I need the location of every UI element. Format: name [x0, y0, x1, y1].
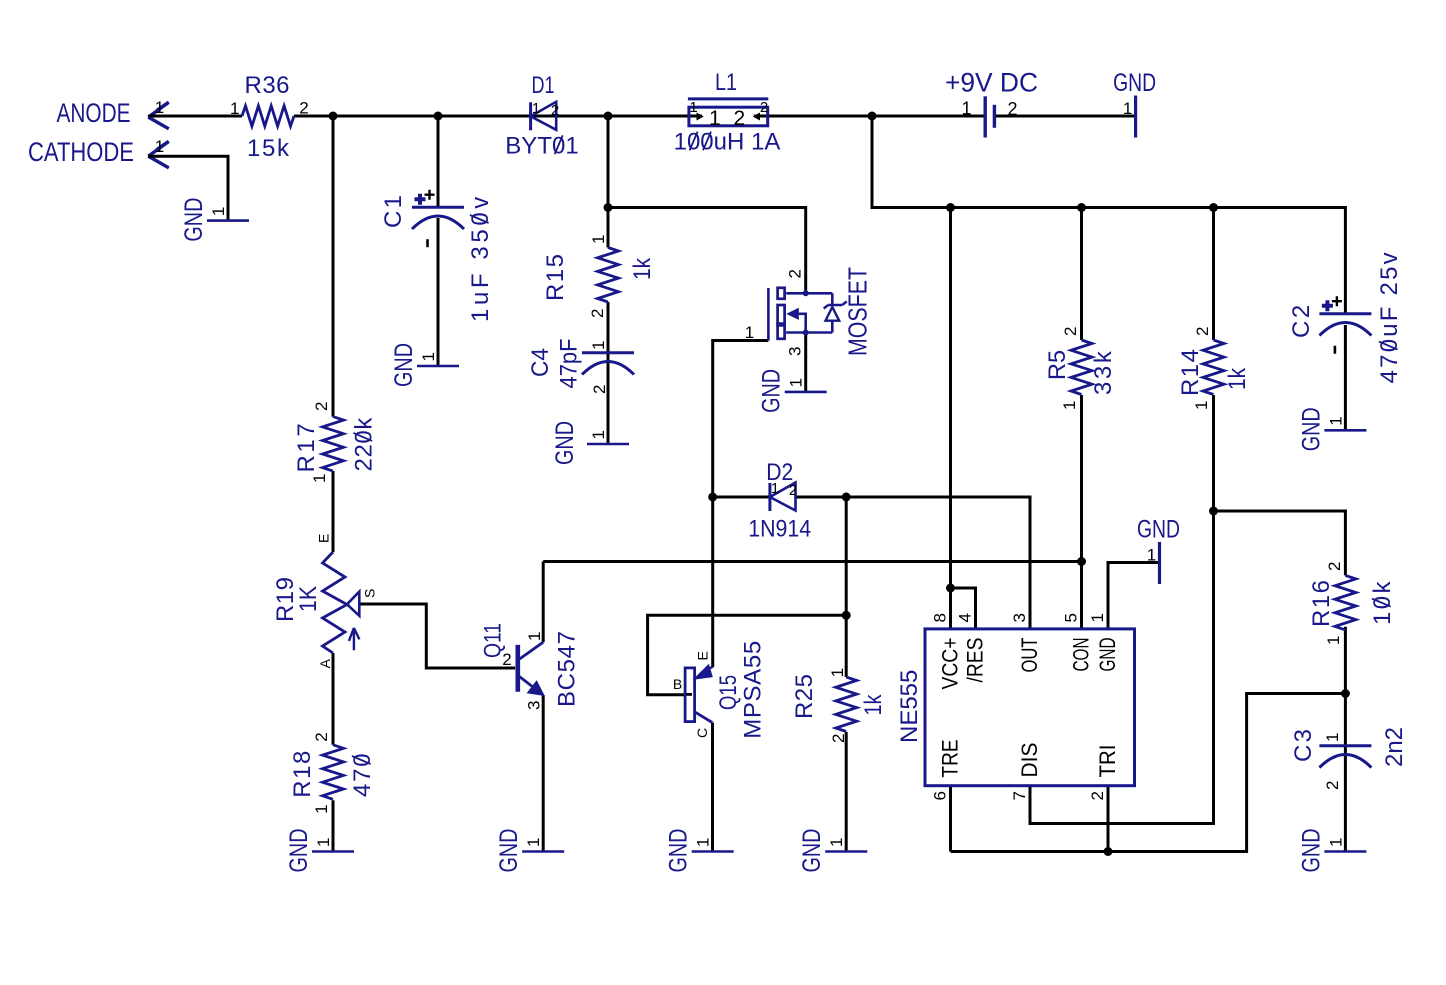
svg-text:E: E	[695, 651, 711, 660]
wire C1 to ground	[437, 218, 440, 366]
capacitor C3	[1290, 727, 1408, 790]
op-amp U1 NE555 timer	[896, 613, 1135, 800]
ground for R18	[285, 829, 354, 873]
svg-text:C1: C1	[380, 195, 407, 228]
svg-text:100uH 1A: 100uH 1A	[674, 129, 781, 156]
transistor Q15	[673, 641, 767, 739]
svg-text:GND: GND	[1113, 69, 1156, 97]
svg-text:2: 2	[551, 102, 559, 119]
wire D1 node down to R15	[607, 116, 610, 248]
svg-text:3: 3	[525, 701, 544, 710]
battery +9V DC	[945, 68, 1038, 138]
svg-text:R36: R36	[245, 72, 290, 99]
svg-text:2: 2	[829, 734, 848, 743]
svg-text:10k: 10k	[1369, 579, 1396, 625]
ground for CATHODE	[180, 198, 249, 242]
junction node VCC bus tap	[946, 203, 955, 212]
resistor R25	[791, 668, 887, 743]
wire DIS node to R16	[1214, 511, 1346, 575]
svg-text:1: 1	[1323, 733, 1342, 742]
capacitor C4	[527, 339, 634, 395]
wire VCC node jog to pin 4	[951, 588, 976, 629]
svg-text:L1: L1	[715, 69, 737, 96]
svg-text:R16: R16	[1308, 580, 1335, 627]
junction node C1 tap	[434, 112, 443, 121]
wire Q11 collector	[542, 562, 545, 643]
svg-text:2: 2	[1193, 327, 1212, 336]
ground for C4	[551, 421, 629, 465]
junction node R14 top	[1209, 203, 1218, 212]
svg-text:DIS: DIS	[1017, 743, 1042, 778]
wire R36 to L1 left pin	[294, 115, 702, 118]
wire top rail to C1	[437, 116, 440, 207]
wire D2 node down to Q15 base node	[845, 497, 848, 615]
svg-text:CATHODE: CATHODE	[28, 137, 134, 167]
svg-text:ANODE: ANODE	[57, 98, 131, 128]
svg-text:C4: C4	[527, 348, 554, 377]
svg-text:S: S	[362, 589, 378, 598]
svg-text:R15: R15	[542, 254, 569, 301]
svg-text:GND: GND	[1137, 516, 1180, 544]
svg-text:B: B	[673, 676, 682, 692]
junction node D1 cathode	[604, 112, 613, 121]
svg-text:C: C	[694, 728, 710, 738]
svg-text:1: 1	[771, 480, 779, 497]
svg-text:1: 1	[1147, 546, 1156, 565]
svg-text:TRI: TRI	[1095, 745, 1120, 778]
svg-text:R25: R25	[791, 674, 818, 719]
svg-text:VCC+: VCC+	[938, 638, 963, 690]
wire 555 pin 1 to GND terminal	[1108, 563, 1160, 630]
svg-text:MOSFET: MOSFET	[843, 267, 873, 356]
svg-text:1: 1	[155, 98, 164, 117]
svg-text:1: 1	[312, 804, 331, 813]
svg-text:470uF 25v: 470uF 25v	[1376, 250, 1403, 383]
ground GND terminal top right	[1113, 69, 1156, 138]
svg-text:1: 1	[1123, 99, 1132, 118]
junction node R15 top	[604, 203, 613, 212]
svg-text:R14: R14	[1177, 349, 1204, 396]
resistor R16	[1308, 562, 1396, 645]
ground for Q11	[495, 829, 564, 873]
wire Q15 base node to R25	[845, 615, 848, 677]
svg-text:1: 1	[1088, 613, 1107, 622]
capacitor C1	[380, 190, 494, 322]
wire bus to R14	[1212, 208, 1215, 341]
svg-text:1: 1	[314, 838, 333, 847]
wire MOSFET source to ground	[804, 335, 807, 392]
junction node R16 C3	[1341, 689, 1350, 698]
svg-text:GND: GND	[1095, 638, 1120, 672]
svg-text:GND: GND	[798, 829, 826, 873]
svg-text:470: 470	[349, 752, 376, 797]
svg-text:2: 2	[299, 99, 308, 118]
svg-text:GND: GND	[758, 369, 786, 413]
wire bus to R5	[1080, 208, 1083, 341]
svg-text:GND: GND	[180, 198, 208, 242]
svg-text:GND: GND	[1297, 829, 1325, 873]
wire CATHODE to ground	[148, 156, 228, 220]
svg-text:5: 5	[1062, 613, 1081, 622]
resistor R36	[230, 72, 309, 162]
svg-text:1: 1	[525, 632, 544, 641]
junction node D2 cathode	[842, 493, 851, 502]
junction node CON R5	[1077, 557, 1086, 566]
svg-text:1: 1	[709, 107, 721, 130]
wire +9V rail down and across to C2	[872, 116, 1345, 314]
ground for MOSFET source	[758, 369, 827, 413]
junction node R5 top	[1077, 203, 1086, 212]
wire CON node to pin 5	[1080, 562, 1083, 630]
svg-text:6: 6	[931, 791, 950, 800]
wire Q11 emitter to ground	[542, 695, 545, 852]
svg-text:2: 2	[1088, 791, 1107, 800]
svg-text:2: 2	[1325, 562, 1344, 571]
potentiometer R19	[272, 534, 378, 669]
svg-text:A: A	[317, 658, 333, 668]
svg-text:2: 2	[1061, 327, 1080, 336]
svg-text:1: 1	[230, 99, 239, 118]
junction node R36 output	[329, 112, 338, 121]
diode D1	[505, 72, 578, 160]
resistor R14	[1177, 327, 1251, 410]
wire R17 to R19 E	[332, 471, 335, 552]
ground for R25	[798, 829, 867, 873]
svg-text:C2: C2	[1288, 305, 1315, 338]
svg-text:R5: R5	[1044, 350, 1071, 380]
svg-text:1: 1	[694, 838, 713, 847]
svg-text:NE555: NE555	[896, 670, 923, 743]
svg-text:1: 1	[1326, 838, 1345, 847]
inductor L1	[674, 69, 781, 156]
svg-text:2: 2	[312, 402, 331, 411]
svg-text:Q15: Q15	[715, 675, 742, 710]
svg-text:1: 1	[1324, 636, 1343, 645]
svg-text:1: 1	[524, 838, 543, 847]
wire C4 to ground	[607, 362, 610, 444]
svg-text:47pF: 47pF	[556, 339, 583, 389]
wire C3 node through cap to ground	[1344, 694, 1347, 852]
svg-text:/RES: /RES	[963, 638, 988, 683]
wire C2 to ground	[1344, 325, 1347, 430]
svg-text:2: 2	[1323, 781, 1342, 790]
svg-text:4: 4	[956, 613, 975, 622]
svg-text:MPSA55: MPSA55	[740, 641, 767, 739]
svg-text:2: 2	[760, 99, 768, 116]
svg-text:1: 1	[1060, 401, 1079, 410]
wire L1 right pin to battery	[754, 115, 985, 118]
svg-text:2: 2	[588, 309, 607, 318]
svg-text:2: 2	[312, 732, 331, 741]
svg-text:1k: 1k	[860, 694, 887, 716]
wire Q15 collector to ground	[711, 723, 714, 852]
transistor MOSFET	[745, 267, 873, 356]
wire R25 to ground	[845, 732, 848, 852]
wire R18 to ground	[332, 800, 335, 851]
svg-text:+9V DC: +9V DC	[945, 68, 1038, 98]
wire D1 node bus to MOSFET drain	[608, 208, 806, 291]
wire node R36-right down to R17	[332, 116, 335, 417]
svg-text:GND: GND	[495, 829, 523, 873]
svg-text:1: 1	[419, 352, 438, 361]
svg-text:1K: 1K	[295, 586, 322, 612]
svg-text:1uF 350v: 1uF 350v	[467, 193, 494, 322]
svg-text:2: 2	[1007, 99, 1017, 119]
ground for C2	[1297, 407, 1366, 451]
svg-text:TRE: TRE	[938, 740, 963, 778]
svg-text:3: 3	[786, 347, 805, 356]
svg-text:1: 1	[589, 235, 608, 244]
ground for C3	[1297, 829, 1366, 873]
svg-text:1: 1	[745, 323, 754, 342]
svg-text:33k: 33k	[1090, 350, 1117, 395]
svg-text:GND: GND	[665, 829, 693, 873]
junction node DIS R14 R16	[1209, 507, 1218, 516]
wire D2 anode segment	[713, 496, 770, 499]
svg-text:220k: 220k	[351, 417, 378, 472]
svg-text:7: 7	[1010, 791, 1029, 800]
ground for Q15	[665, 829, 734, 873]
svg-text:1: 1	[589, 430, 608, 439]
wire battery to GND terminal	[994, 115, 1135, 118]
ground for C1	[390, 343, 459, 387]
svg-text:GND: GND	[551, 421, 579, 465]
svg-text:2: 2	[502, 650, 511, 669]
svg-text:D1: D1	[532, 72, 555, 99]
junction node TRI	[1104, 847, 1113, 856]
svg-text:1N914: 1N914	[748, 516, 811, 543]
wire Q11 collector to CON pin 5	[543, 560, 1081, 563]
svg-text:R18: R18	[289, 751, 316, 798]
wire top rail from ANODE arrow through R36 D1 to L1	[148, 115, 242, 118]
svg-text:2n2: 2n2	[1381, 727, 1408, 767]
transistor Q11	[480, 623, 581, 710]
port CATHODE	[28, 137, 169, 168]
svg-text:2: 2	[786, 269, 805, 278]
svg-text:1: 1	[827, 838, 846, 847]
wire MOSFET gate to D2 anode and Q15 emitter	[713, 341, 769, 668]
svg-text:1: 1	[787, 378, 806, 387]
wire D2 node to OUT pin 3	[846, 497, 1030, 629]
svg-text:15k: 15k	[247, 135, 290, 162]
resistor R15	[542, 235, 656, 318]
diode D2	[748, 459, 811, 543]
svg-text:C3: C3	[1290, 729, 1317, 762]
svg-text:GND: GND	[390, 343, 418, 387]
svg-text:1: 1	[532, 100, 540, 117]
svg-text:1: 1	[155, 137, 164, 156]
wire 555 pin 6 TRE down	[949, 786, 952, 852]
svg-text:1: 1	[1326, 416, 1345, 425]
svg-text:1: 1	[961, 99, 971, 119]
svg-text:BC547: BC547	[554, 631, 581, 707]
svg-text:OUT: OUT	[1017, 638, 1042, 673]
resistor R5	[1044, 327, 1117, 410]
svg-text:1: 1	[828, 668, 847, 677]
svg-text:2: 2	[590, 385, 609, 394]
wire R14 to DIS node	[1212, 395, 1215, 511]
svg-text:1: 1	[1192, 401, 1211, 410]
svg-text:8: 8	[931, 613, 950, 622]
junction node VCC pins 8-4	[946, 584, 955, 593]
wire bus to VCC riser	[949, 208, 952, 589]
ground GND terminal at 555	[1137, 516, 1180, 585]
junction node Q15 base R25	[842, 611, 851, 620]
svg-text:GND: GND	[1297, 407, 1325, 451]
wire C3 node to TRI row	[951, 694, 1346, 852]
junction node +9V tap	[868, 112, 877, 121]
resistor R18	[289, 732, 376, 814]
svg-text:1: 1	[689, 99, 697, 116]
svg-text:2: 2	[734, 107, 746, 130]
svg-text:CON: CON	[1069, 638, 1094, 672]
resistor R17	[293, 402, 378, 483]
wire R19 A to R18	[332, 653, 335, 745]
wire R15 to C4	[607, 302, 610, 362]
svg-text:R17: R17	[293, 423, 320, 472]
wire 555 pin 2 TRI down	[1107, 786, 1110, 852]
wire 555 pin 7 DIS to R14 node	[1030, 511, 1214, 824]
svg-text:1: 1	[209, 207, 228, 216]
svg-text:3: 3	[1010, 613, 1029, 622]
wire D2 cathode to node	[796, 496, 847, 499]
svg-text:E: E	[316, 534, 332, 543]
svg-text:2: 2	[789, 482, 797, 499]
svg-text:BYT01: BYT01	[505, 133, 578, 160]
svg-text:1: 1	[589, 341, 608, 350]
wire R19 wiper to Q11 base	[359, 604, 515, 668]
svg-text:1k: 1k	[629, 257, 656, 280]
wire VCC node to pin 8	[949, 588, 952, 629]
wire Q15 base loop to node	[648, 615, 847, 694]
svg-text:GND: GND	[285, 829, 313, 873]
wire R5 to CON node	[1080, 395, 1083, 562]
svg-text:1k: 1k	[1224, 367, 1251, 390]
capacitor C2	[1288, 250, 1403, 383]
port ANODE	[57, 98, 169, 129]
svg-text:1: 1	[310, 474, 329, 483]
wire R16 to C3 node	[1344, 627, 1347, 694]
junction node D2 anode	[708, 493, 717, 502]
